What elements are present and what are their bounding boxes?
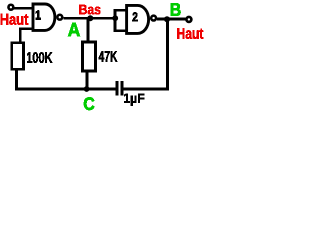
node B junction dot (164, 16, 170, 22)
gate U1 label 1 (36, 11, 41, 20)
wire R1 bottom lead (15, 70, 18, 89)
wire input1 (terminal to gate 1 input 1) (12, 7, 33, 9)
label 1uF (124, 94, 144, 106)
wire gate2 input bracket vertical (114, 9, 117, 32)
label Bas (red) (79, 5, 100, 15)
label 100K (27, 52, 52, 63)
wire gate1 input2 vertical to R1 top (19, 27, 22, 43)
resistor R2 47K body (82, 42, 95, 71)
gate U1 output bubble (57, 15, 62, 20)
label Haut (left, red) (1, 14, 29, 25)
gate U2 label 2 (133, 12, 138, 21)
capacitor C1 left plate (116, 81, 119, 95)
node Bas junction dot (87, 15, 93, 21)
wire bottom rail right (123, 88, 169, 91)
wire gate2 output to terminal (157, 18, 186, 21)
label B (green) (171, 3, 181, 16)
terminal IN (open circle top-left) (8, 5, 13, 10)
wire bottom rail left (15, 88, 116, 91)
label C (green) (84, 97, 94, 110)
resistor R1 100K body (12, 43, 24, 70)
gate U2 output bubble (151, 16, 156, 21)
wire right vertical (node B down to rail) (166, 19, 169, 91)
label Haut (right, red) (177, 28, 203, 39)
node C junction dot (84, 86, 90, 92)
nand gate U2 body (127, 5, 149, 33)
wire R2 bottom lead (85, 71, 88, 89)
terminal OUT (open circle right) (186, 17, 191, 22)
wire gate2 input top stub (114, 9, 127, 12)
wire gate1 output to gate2 input (64, 17, 115, 20)
label A (green) (68, 23, 80, 37)
wire gate2 input bottom stub (114, 30, 127, 33)
wire gate1 input2 horizontal (19, 27, 35, 30)
wire Bas node down to R2 top (87, 18, 90, 43)
label 47K (99, 51, 118, 62)
nand gate U1 body (33, 4, 55, 30)
gate2 input junction dot (112, 15, 118, 21)
capacitor C1 right plate (121, 81, 124, 95)
